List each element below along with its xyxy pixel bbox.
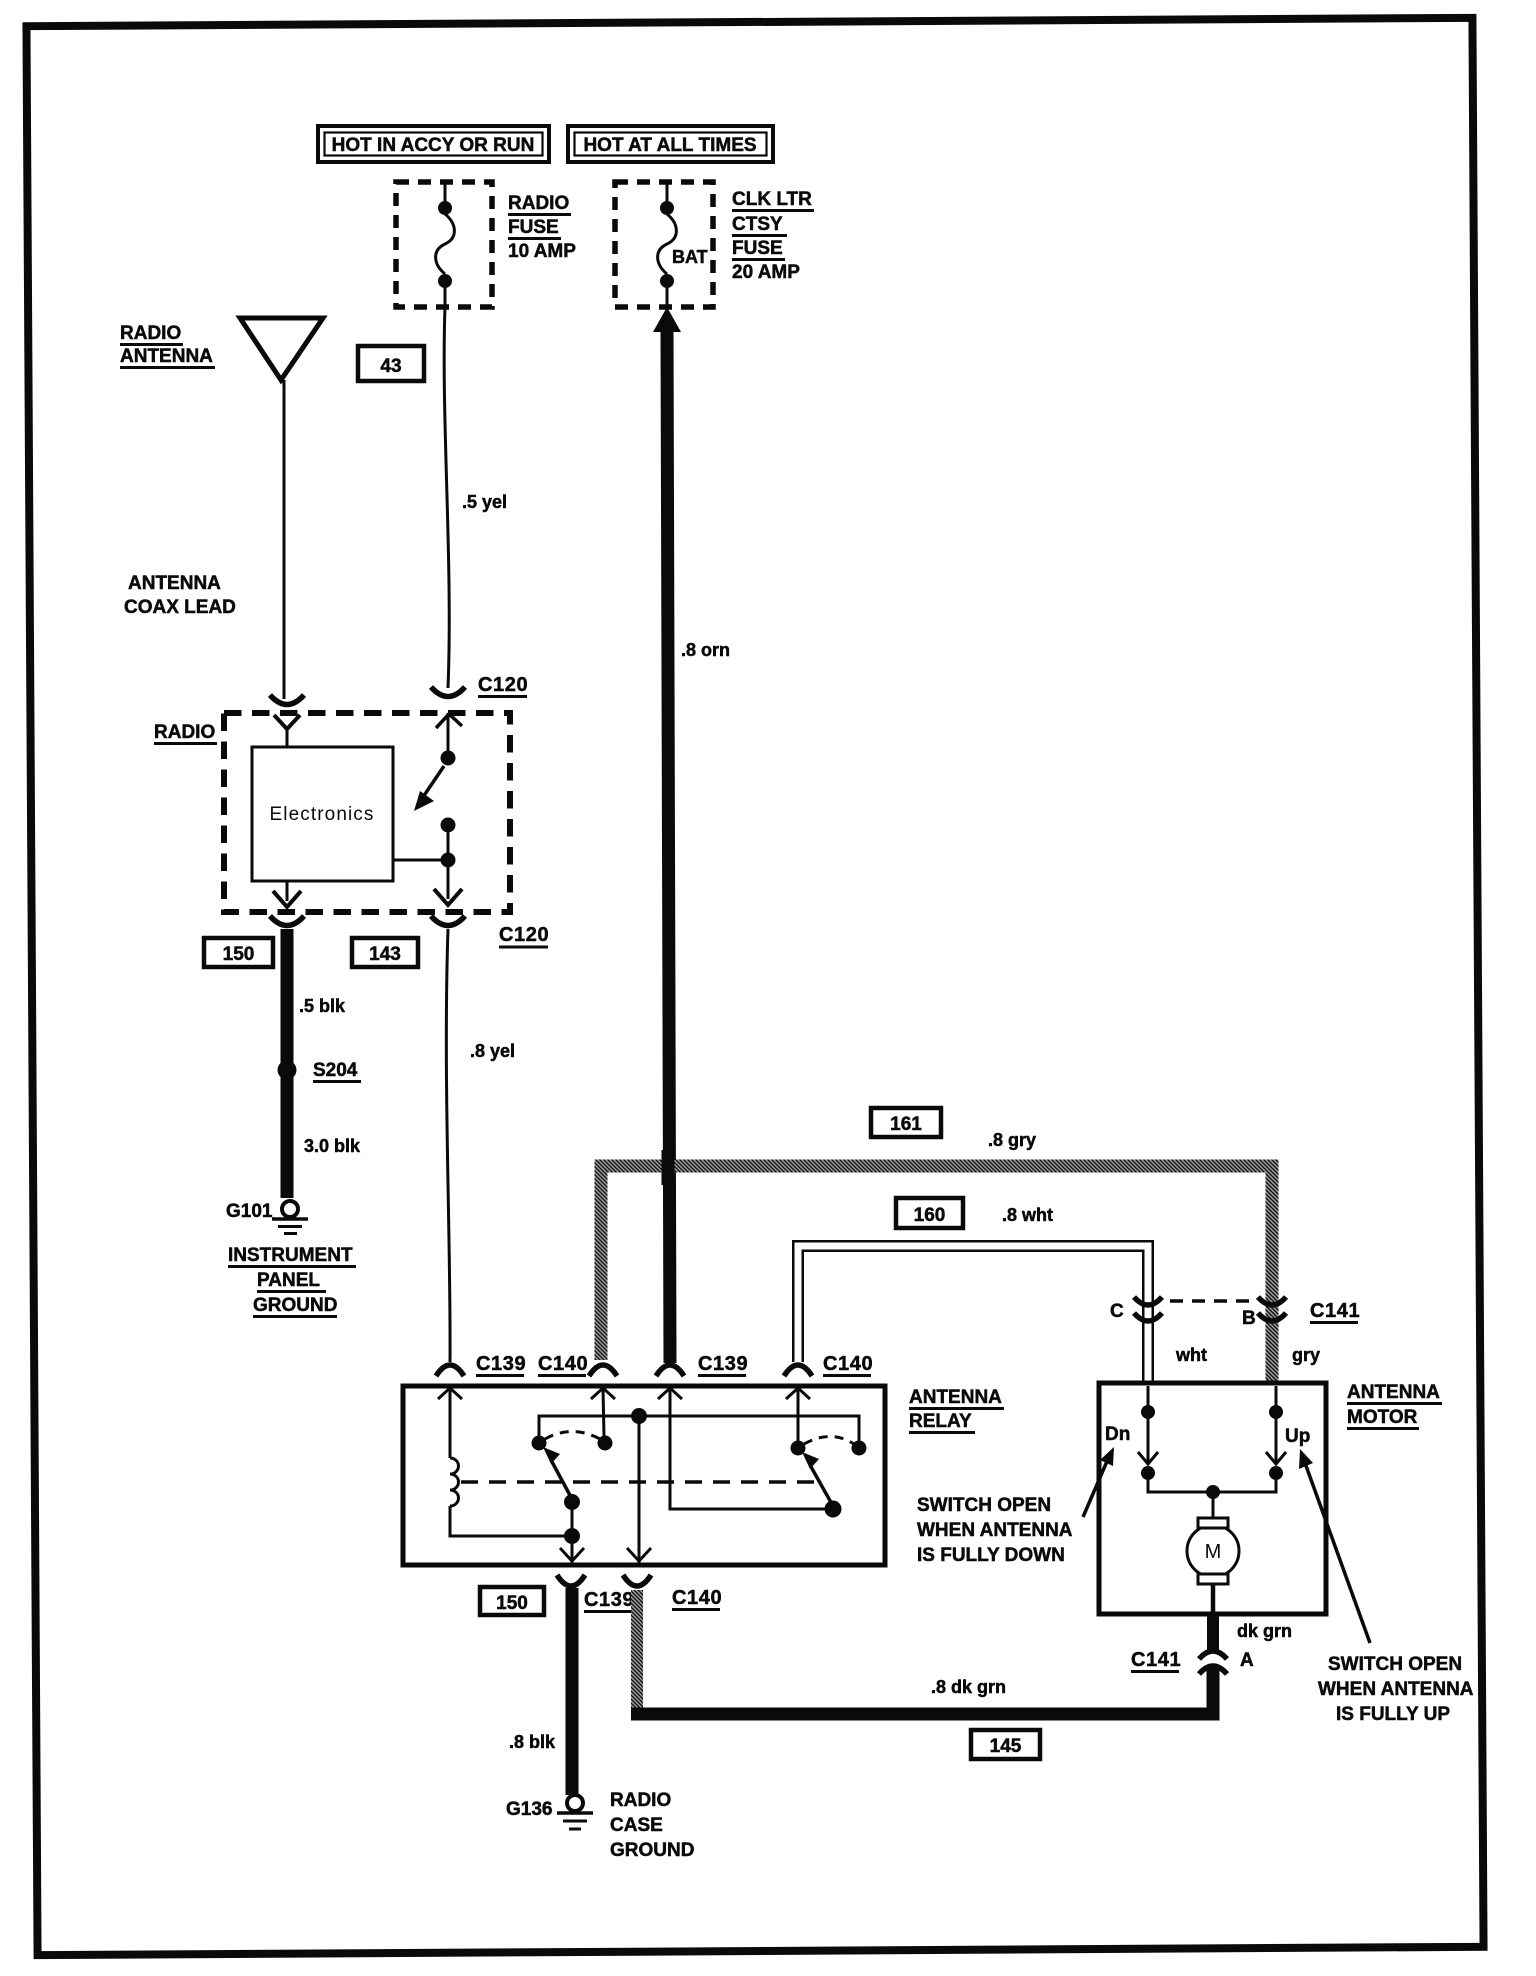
svg-text:dk grn: dk grn [1237,1621,1292,1641]
fuse CLK LTR CTSY FUSE 20 AMP (dashed box) [615,182,713,307]
circuit number box 43 [358,346,424,381]
label RADIO [154,722,217,744]
motor M [1187,1518,1239,1614]
motor internal bus [1148,1473,1276,1526]
svg-text:WHEN ANTENNA: WHEN ANTENNA [917,1520,1073,1541]
svg-text:C141: C141 [1310,1300,1360,1322]
wire gry hatched below relay C140 [631,1590,643,1710]
svg-text:WHEN ANTENNA: WHEN ANTENNA [1318,1679,1474,1700]
svg-text:Dn: Dn [1105,1424,1130,1445]
label RADIO FUSE 10 AMP [508,193,576,262]
svg-text:.8 gry: .8 gry [988,1130,1036,1150]
relay internal bus wire y1416 [539,1416,859,1443]
connector cup relay top C140 #2 [784,1365,812,1376]
svg-text:.8 blk: .8 blk [509,1732,556,1752]
junction node on bus [631,1408,647,1424]
svg-text:150: 150 [223,944,255,965]
svg-text:ANTENNA: ANTENNA [1347,1382,1440,1403]
chevron into radio top-left [274,715,300,748]
connector label C140 (relay top 1) [538,1353,588,1376]
connector C120 label (top) [478,674,528,697]
wire .5 yel from radio fuse to C120 [444,307,507,688]
antenna motor box [1099,1383,1326,1614]
svg-text:.8 dk grn: .8 dk grn [931,1677,1006,1697]
switch inside radio (arrow arm) [393,751,456,868]
connector label C139 (relay top 2) [698,1353,748,1376]
svg-text:ANTENNA: ANTENNA [909,1387,1002,1408]
wire .8 dk grn horizontal run [631,1671,1213,1714]
svg-text:GROUND: GROUND [253,1295,337,1316]
svg-text:RELAY: RELAY [909,1411,972,1432]
relay entry arrow pin1 [438,1388,462,1399]
wire pin2 stem [603,1388,604,1437]
svg-text:.5 blk: .5 blk [299,996,346,1016]
svg-text:IS FULLY UP: IS FULLY UP [1336,1704,1450,1725]
right switch dashed arc [804,1437,854,1445]
radio bottom-right exit wire + chevron [434,866,462,905]
svg-text:161: 161 [890,1114,922,1135]
svg-text:INSTRUMENT: INSTRUMENT [228,1245,353,1266]
connector cup relay bottom C139 [557,1575,585,1586]
svg-text:HOT IN ACCY OR RUN: HOT IN ACCY OR RUN [332,135,535,156]
svg-text:CTSY: CTSY [732,214,783,235]
circuit number box 161 [871,1108,941,1137]
connector label C141 (A) [1131,1649,1181,1672]
antenna relay box [403,1386,885,1565]
connector C141 A cups [1199,1651,1227,1674]
label ANTENNA MOTOR [1347,1382,1442,1429]
svg-text:C: C [1110,1301,1124,1322]
svg-text:MOTOR: MOTOR [1347,1407,1418,1428]
svg-text:G136: G136 [506,1799,552,1820]
svg-text:A: A [1240,1650,1254,1671]
svg-text:C140: C140 [823,1353,873,1375]
svg-text:C140: C140 [672,1587,722,1609]
radio antenna symbol [240,318,323,380]
splice S204 [278,1060,362,1082]
header box HOT AT ALL TIMES [568,126,773,162]
svg-text:C139: C139 [476,1353,526,1375]
svg-text:M: M [1205,1541,1222,1563]
wire .8 orn from CLK fuse down to relay C139 (thick, arrow up into fuse) [653,307,730,1363]
connector cup radio top-left (coax entry) [270,695,304,705]
wire antenna coax lead [283,380,286,699]
node left switch common upper [564,1494,580,1510]
connector cup radio bottom-right [431,916,465,926]
svg-text:COAX LEAD: COAX LEAD [124,597,236,618]
radio component dashed box [224,713,510,912]
wire pin3 down and right [670,1388,828,1509]
left switch dashed arc [545,1432,600,1440]
svg-text:145: 145 [990,1736,1022,1757]
svg-text:160: 160 [914,1205,946,1226]
svg-text:S204: S204 [313,1060,358,1081]
node left switch common lower [564,1528,580,1544]
connector cup radio bottom-left [270,916,304,926]
svg-text:C120: C120 [478,674,528,696]
wire .8 yel from C120 to relay C139 [446,929,515,1362]
label RADIO CASE GROUND [610,1790,694,1861]
label RADIO ANTENNA [120,323,215,368]
svg-text:GROUND: GROUND [610,1840,694,1861]
ground G136 [506,1795,593,1829]
svg-text:RADIO: RADIO [154,722,215,743]
svg-text:Electronics: Electronics [269,804,374,825]
left switch arm with arrowhead [543,1447,572,1499]
wire dk grn from motor to C141-A [1207,1614,1219,1650]
connector cup relay bottom C140 [623,1575,651,1586]
svg-text:150: 150 [496,1593,528,1614]
wire .8 wht (outlined) from relay C140 up and across to C141-C [798,1246,1148,1384]
relay entry arrow pin2 [591,1388,615,1399]
label INSTRUMENT PANEL GROUND [228,1245,356,1317]
svg-text:ANTENNA: ANTENNA [120,346,213,367]
connector label C139 (relay bottom) [584,1589,634,1612]
connector cup relay top C140 #1 [589,1365,617,1376]
node right switch lower [825,1501,842,1518]
header box HOT IN ACCY OR RUN [318,126,549,162]
connector cup relay top C139 #2 [656,1365,684,1376]
connector cup radio top-right C120 [431,687,465,697]
note SWITCH OPEN WHEN ANTENNA IS FULLY DOWN [917,1495,1073,1566]
electronics box inside radio [252,747,393,881]
svg-text:G101: G101 [226,1201,273,1222]
svg-text:ANTENNA: ANTENNA [128,573,221,594]
svg-text:Up: Up [1285,1426,1310,1447]
arrow from up-note to Up [1299,1449,1370,1643]
svg-text:SWITCH OPEN: SWITCH OPEN [917,1495,1051,1516]
svg-text:PANEL: PANEL [257,1270,320,1291]
radio bottom-left exit wire + chevron [273,881,301,907]
svg-text:FUSE: FUSE [732,238,783,259]
svg-text:C120: C120 [499,924,549,946]
motor Up limit switch [1266,1386,1286,1480]
relay coil [450,1388,564,1536]
right switch arm with arrowhead [802,1452,833,1506]
circuit number box 143 [352,938,418,967]
wire dk grn below A connector [1207,1668,1219,1712]
svg-text:wht: wht [1175,1345,1207,1365]
svg-text:3.0 blk: 3.0 blk [304,1136,361,1156]
wire left common to bottom with arrow [560,1502,584,1564]
svg-text:RADIO: RADIO [120,323,181,344]
svg-text:FUSE: FUSE [508,217,559,238]
svg-text:BAT: BAT [672,247,708,267]
svg-text:SWITCH OPEN: SWITCH OPEN [1328,1654,1462,1675]
connector cup relay top C139 #1 [436,1365,464,1376]
wire pin4 stem [797,1388,800,1442]
ground G101 [226,1201,308,1234]
svg-text:B: B [1242,1308,1256,1329]
circuit number box 145 [971,1730,1040,1759]
relay entry arrow pin3 [658,1388,682,1399]
wire .8 gry (hatched) from relay C140 up and across to C141-B [601,1166,1272,1383]
svg-text:.8 orn: .8 orn [681,640,730,660]
svg-text:CASE: CASE [610,1815,663,1836]
svg-text:10 AMP: 10 AMP [508,241,576,262]
svg-text:C139: C139 [698,1353,748,1375]
node left switch pivot [532,1436,547,1451]
svg-text:20 AMP: 20 AMP [732,262,800,283]
svg-text:CLK LTR: CLK LTR [732,189,812,210]
connector label C139 (relay top 1) [476,1353,526,1376]
label ANTENNA COAX LEAD [124,573,236,618]
connector C141 C cups [1134,1297,1162,1321]
label ANTENNA RELAY [909,1387,1004,1433]
dashed line between C and B [1170,1299,1250,1303]
svg-text:HOT AT ALL TIMES: HOT AT ALL TIMES [583,135,756,156]
connector label C140 (relay top 2) [823,1353,873,1376]
relay entry arrow pin4 [786,1388,810,1399]
label CLK LTR CTSY FUSE 20 AMP [732,189,814,283]
node right bus corner [852,1441,867,1456]
dashed mechanical link line [461,1480,814,1484]
circuit number box 150 (radio ground) [204,938,273,967]
wire .8 orn over grey crossing [662,1150,675,1185]
wire .5 blk / 3.0 blk thick to ground [281,929,294,1198]
connector C120 label (bottom) [499,924,549,947]
svg-text:.5 yel: .5 yel [462,492,507,512]
svg-text:C139: C139 [584,1589,634,1611]
wire .8 blk thick to G136 [566,1588,579,1795]
svg-text:143: 143 [369,944,401,965]
svg-text:gry: gry [1292,1345,1320,1365]
motor Dn limit switch [1138,1386,1158,1480]
svg-text:IS FULLY DOWN: IS FULLY DOWN [917,1545,1065,1566]
node right switch pivot [791,1441,806,1456]
svg-text:.8 yel: .8 yel [470,1041,515,1061]
connector C141 B cups [1258,1297,1286,1321]
svg-text:C140: C140 [538,1353,588,1375]
connector label C141 [1310,1300,1360,1323]
note SWITCH OPEN WHEN ANTENNA IS FULLY UP [1318,1654,1474,1725]
circuit number box 150 (relay ground) [480,1587,544,1615]
svg-text:C141: C141 [1131,1649,1181,1671]
wire center bus to bottom with arrow [627,1416,651,1564]
connector label C140 (relay bottom) [672,1587,722,1610]
svg-text:43: 43 [380,356,401,377]
svg-text:.8 wht: .8 wht [1002,1205,1053,1225]
svg-text:RADIO: RADIO [610,1790,671,1811]
arrow from down-note to Dn [1083,1447,1114,1517]
svg-text:RADIO: RADIO [508,193,569,214]
fuse RADIO FUSE 10 AMP (dashed box) [396,182,492,307]
node pin2 [598,1436,613,1451]
circuit number box 160 [896,1198,963,1228]
chevron into radio top-right [436,713,462,753]
